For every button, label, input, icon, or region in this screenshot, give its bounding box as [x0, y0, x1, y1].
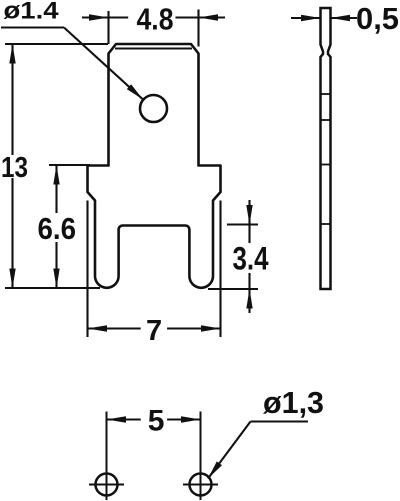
coin line on blade tip — [115, 47, 192, 49]
dim 0,5 arrow right (tip at strip right) — [331, 15, 351, 21]
svg-text:ø1.4: ø1.4 — [4, 0, 60, 25]
dim 7 ext line left — [86, 201, 88, 338]
dim 3.4 bottom ext line — [208, 288, 258, 290]
svg-text:13: 13 — [1, 152, 28, 184]
leader ø1.4 arrowhead at hole — [127, 84, 143, 99]
dim 3.4 arrow bottom (outside, pointing up) — [248, 289, 250, 313]
dim 5 line left — [107, 418, 141, 420]
dim 4.8 line left tail — [82, 16, 109, 18]
dim 7 arrow right (inside, pointing right) — [201, 325, 221, 331]
pcb hole left crosshair vertical / ext — [106, 412, 108, 501]
dim 4.8 line right tail — [199, 16, 226, 18]
dim 4.8 line inner right — [176, 16, 199, 18]
dim 4.8 ext line left — [107, 11, 109, 44]
leader ø1.4 underline — [1, 26, 64, 28]
svg-text:6.6: 6.6 — [38, 211, 77, 246]
pcb hole right crosshair horizontal — [183, 484, 218, 486]
dim 6.6 arrow top — [53, 165, 59, 185]
dim 4.8 arrow left outside — [89, 14, 109, 20]
hole in blade — [140, 95, 167, 122]
svg-text:3.4: 3.4 — [233, 240, 269, 276]
dim 3.4 line segment below top ext — [248, 225, 250, 244]
pcb hole left crosshair horizontal — [89, 484, 124, 486]
dim 0,5 line right — [331, 17, 358, 19]
pcb hole left circle — [96, 474, 118, 496]
leader ø1,3 underline — [251, 420, 309, 422]
leader ø1,3 diagonal — [208, 422, 251, 479]
dim 6.6 line lower — [55, 242, 57, 288]
dim 13 line upper — [11, 44, 13, 155]
side view section tick y=120 — [321, 119, 331, 121]
leader ø1.4 diagonal — [64, 28, 143, 100]
dim 3.4 line segment above bottom ext — [248, 273, 250, 289]
dim 3.4 arrow top (outside, pointing down) — [248, 200, 250, 225]
dim 13 arrow bottom — [9, 269, 15, 289]
dim 7 arrow left (inside, pointing left) — [88, 325, 108, 331]
svg-text:7: 7 — [146, 315, 162, 347]
dim 13 line lower — [11, 178, 13, 288]
dim 13 top ext line — [5, 43, 108, 45]
dim 4.8 arrow right outside — [199, 14, 219, 20]
side view section tick y=164.5 — [321, 164, 331, 166]
dim 13 arrow top — [9, 44, 15, 64]
dim 5 arrow right (inside, pointing right) — [181, 416, 201, 422]
dim 6.6 line upper — [55, 165, 57, 213]
dim 13 bottom ext line — [5, 287, 100, 289]
dim 4.8 line inner left — [109, 16, 129, 18]
dim 3.4 top ext line — [227, 223, 258, 225]
dim 0,5 line left — [291, 17, 321, 19]
svg-text:4.8: 4.8 — [137, 2, 174, 37]
side view strip — [321, 8, 331, 289]
side view section tick y=224 — [321, 223, 331, 225]
dim 5 arrow left (inside, pointing left) — [107, 416, 127, 422]
dim 0,5 arrow left (tip at strip left) — [301, 15, 321, 21]
dim 7 line right — [167, 327, 220, 329]
tab front view outline — [88, 44, 221, 288]
svg-text:5: 5 — [148, 405, 165, 438]
svg-text:0,5: 0,5 — [356, 1, 399, 36]
dim 6.6 top ext line — [49, 164, 90, 166]
leader ø1,3 arrowhead at hole — [208, 461, 222, 478]
pcb hole right crosshair vertical / ext — [200, 412, 202, 501]
svg-text:ø1,3: ø1,3 — [263, 385, 324, 420]
dim 7 ext line right — [219, 201, 221, 338]
dim 5 line right — [167, 418, 200, 420]
dim 4.8 ext line right — [197, 10, 199, 47]
side view section tick y=94 — [321, 93, 331, 95]
dim 6.6 arrow bottom — [53, 269, 59, 289]
pcb hole right circle — [190, 474, 212, 496]
dim 7 line left — [88, 327, 141, 329]
